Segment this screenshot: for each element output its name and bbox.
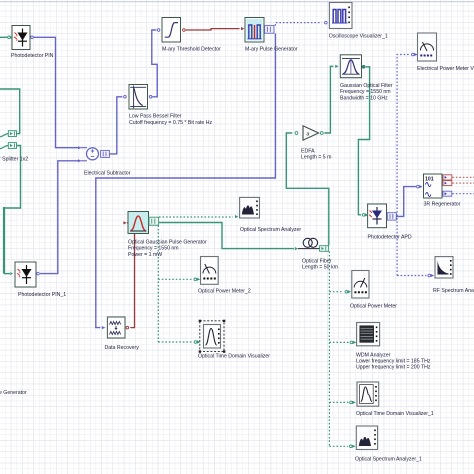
power splitter 1x2 (clipped at left edge) xyxy=(0,131,28,163)
svg-text:Electrical Subtractor: Electrical Subtractor xyxy=(84,171,131,177)
wire: M-ary Pulse Generator monitor (dashed) to Oscilloscope Visualizer_1 xyxy=(275,23,321,26)
svg-text:Optical Spectrum Analyzer_1: Optical Spectrum Analyzer_1 xyxy=(355,457,422,463)
svg-text:Electrical Power Meter Visuali: Electrical Power Meter Visualizer xyxy=(417,66,474,72)
wire: Photodetector APD output to 3R Regenerator xyxy=(396,187,416,217)
svg-text:Gaussian Optical Filter: Gaussian Optical Filter xyxy=(340,83,393,89)
svg-text:Power Splitter 1x2: Power Splitter 1x2 xyxy=(0,157,28,163)
svg-text:Oscilloscope Visualizer_1: Oscilloscope Visualizer_1 xyxy=(329,34,388,40)
wire: Electrical Subtractor output to Low Pass Bessel Filter xyxy=(109,97,122,154)
RF spectrum analyzer xyxy=(428,257,474,294)
wire: M-ary Threshold Detector output to M-ary Pulse Generator xyxy=(186,29,240,30)
optical fiber xyxy=(295,238,338,270)
svg-text:Length = 5 m: Length = 5 m xyxy=(301,155,331,161)
wire: Gaussian Optical Filter output to Photodetector APD xyxy=(358,67,369,215)
low pass bessel filter xyxy=(124,85,213,127)
optical spectrum analyzer xyxy=(235,197,301,233)
photodetector APD xyxy=(362,204,411,241)
optical spectrum analyzer_1 xyxy=(350,426,423,463)
wire: APD monitor dashed to Electrical Power Meter Visualizer and RF Spectrum Analyzer xyxy=(397,55,426,276)
svg-text:Optical Spectrum Analyzer: Optical Spectrum Analyzer xyxy=(240,227,301,233)
wire: Data Recovery output to Optical Gaussian Pulse Generator xyxy=(127,223,135,328)
svg-text:Power = 1 mW: Power = 1 mW xyxy=(128,252,162,258)
wire: 3R Regenerator dashed output 2 xyxy=(452,182,474,184)
svg-text:101: 101 xyxy=(425,177,434,183)
wire: Power Splitter output 2 to Photodetector PIN_1 xyxy=(4,146,21,209)
svg-text:3R Regenerator: 3R Regenerator xyxy=(424,202,461,208)
data recovery xyxy=(102,317,139,351)
svg-text:Frequency = 1550 nm: Frequency = 1550 nm xyxy=(340,89,391,95)
svg-text:M-ary Pulse Generator: M-ary Pulse Generator xyxy=(245,47,298,53)
svg-text:M-ary Threshold Detector: M-ary Threshold Detector xyxy=(162,47,221,53)
svg-text:Optical Fiber: Optical Fiber xyxy=(302,259,332,265)
optical gaussian pulse generator xyxy=(123,212,207,258)
wire: Optical Fiber output up to EDFA input xyxy=(286,133,329,245)
wire: Photodetector PIN_1 output to Electrical Subtractor input 2 xyxy=(40,161,81,274)
svg-text:Lower frequency limit = 185 T: Lower frequency limit = 185 THz xyxy=(356,359,431,365)
WDM analyzer xyxy=(350,323,431,371)
optical power meter xyxy=(345,271,397,310)
wire: optical input to Photodetector PIN xyxy=(0,36,7,38)
optical time domain visualizer (selected, marching ants) xyxy=(194,320,270,360)
svg-text:Photodetector APD: Photodetector APD xyxy=(368,235,412,241)
m-ary threshold detector xyxy=(157,18,221,53)
photodetector PIN_1 xyxy=(10,262,66,298)
svg-text:Frequency = 1550 nm: Frequency = 1550 nm xyxy=(128,246,179,252)
svg-text:Optical Power Meter_2: Optical Power Meter_2 xyxy=(198,289,251,295)
svg-text:Optical Gaussian Pulse Generat: Optical Gaussian Pulse Generator xyxy=(128,240,207,246)
svg-text:Cutoff frequency = 0.75 * Bit: Cutoff frequency = 0.75 * Bit rate Hz xyxy=(129,120,212,126)
wire: EDFA output to Gaussian Optical Filter xyxy=(324,66,333,133)
gaussian optical filter xyxy=(335,55,393,102)
wire: Low Pass Bessel Filter output to M-ary Threshold Detector xyxy=(152,30,157,97)
photodetector PIN xyxy=(8,26,54,60)
svg-text:Optical Time Domain Visualizer: Optical Time Domain Visualizer xyxy=(198,354,270,360)
svg-text:Photodetector PIN_1: Photodetector PIN_1 xyxy=(18,292,66,298)
wire: 3R Regenerator dashed output 3 xyxy=(452,193,474,195)
wire: 3R Regenerator dashed output 1 xyxy=(452,176,474,178)
wire: OGPG monitor dashed to Optical Spectrum Analyzer xyxy=(159,216,233,218)
optical power meter_2 xyxy=(194,257,251,295)
3R regenerator xyxy=(417,174,461,208)
wire: Optical Gaussian Pulse Generator output to Optical Fiber xyxy=(159,223,294,249)
svg-text:Photodetector PIN: Photodetector PIN xyxy=(11,53,54,59)
svg-text:Bandwidth = 10 GHz: Bandwidth = 10 GHz xyxy=(340,95,388,101)
svg-text:WDM Analyzer: WDM Analyzer xyxy=(356,352,391,358)
svg-text:EDFA: EDFA xyxy=(301,148,315,154)
wire: OGPG monitor dashed branch to Optical Power Meter_2 and Optical Time Domain Visualizer xyxy=(158,225,193,342)
svg-text:Bit Sequence Generator: Bit Sequence Generator xyxy=(0,390,27,396)
svg-text:RF Spectrum Analyzer: RF Spectrum Analyzer xyxy=(433,288,474,294)
top window edge line xyxy=(0,1,474,2)
wire: Optical Fiber monitor dashed bus to bottom visualizers xyxy=(329,251,349,446)
wire: Photodetector PIN output to Electrical Subtractor input 1 xyxy=(34,37,81,147)
m-ary pulse generator xyxy=(241,18,298,53)
svg-text:Optical Time Domain Visualizer: Optical Time Domain Visualizer_1 xyxy=(356,411,434,417)
electrical subtractor xyxy=(78,146,131,176)
oscilloscope visualizer_1 xyxy=(325,3,388,40)
svg-text:Length = 50 km: Length = 50 km xyxy=(302,265,338,271)
svg-text:a: a xyxy=(307,132,310,138)
svg-text:Upper frequency limit = 200 T: Upper frequency limit = 200 THz xyxy=(356,365,431,371)
optical time domain visualizer_1 xyxy=(350,382,434,417)
svg-text:Data Recovery: Data Recovery xyxy=(105,345,140,351)
wire: M-ary Pulse Generator output to Data Recovery xyxy=(96,33,276,327)
electrical power meter visualizer xyxy=(412,33,474,72)
svg-text:Optical Power Meter: Optical Power Meter xyxy=(350,304,397,310)
svg-text:Low Pass Bessel Filter: Low Pass Bessel Filter xyxy=(129,114,182,120)
EDFA amplifier xyxy=(295,126,331,161)
wire: Power Splitter output 1 exiting left edge xyxy=(0,89,20,134)
